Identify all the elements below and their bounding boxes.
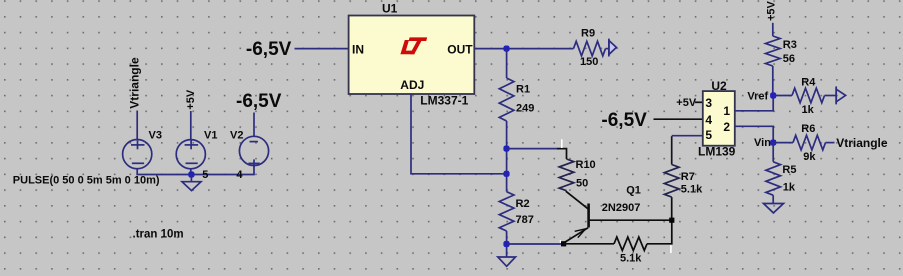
svg-text:IN: IN — [352, 42, 364, 56]
junction R2 bottom — [503, 241, 509, 247]
svg-text:Vref: Vref — [747, 91, 768, 103]
wire V3 bottom lead — [137, 166, 254, 175]
wire R6 to label — [826, 142, 835, 144]
svg-text:1k: 1k — [802, 104, 815, 116]
wire R1 top lead — [506, 49, 508, 78]
svg-text:V1: V1 — [204, 130, 217, 142]
svg-text:R10: R10 — [576, 159, 596, 171]
svg-text:U1: U1 — [382, 1, 398, 15]
svg-text:56: 56 — [783, 53, 795, 65]
wire V1 bottom lead — [190, 169, 192, 176]
svg-text:5.1k: 5.1k — [620, 252, 642, 264]
wire V1 top lead — [190, 111, 192, 140]
svg-text:249: 249 — [516, 102, 534, 114]
wire OUT — [474, 48, 573, 50]
comparator U2 LM139 box — [703, 91, 735, 146]
wire 5.1k to R7 node — [647, 220, 672, 244]
wire V3 top lead — [136, 111, 138, 141]
wire Vin to R5 — [772, 143, 774, 162]
wire R7 top / pin5 — [671, 136, 673, 164]
junction Q1 emitter — [561, 241, 566, 246]
svg-text:R5: R5 — [782, 164, 796, 176]
ground under R5 — [764, 204, 784, 213]
svg-text:Vtriangle: Vtriangle — [836, 136, 888, 150]
resistor R10 — [559, 159, 574, 191]
ground under R2 — [498, 257, 516, 266]
white artifact below R7 node — [670, 245, 672, 253]
wire R7 bottom lead — [671, 197, 673, 220]
svg-text:4: 4 — [236, 169, 243, 181]
svg-text:-6,5V: -6,5V — [246, 39, 292, 60]
wire to 5.1k — [564, 243, 615, 245]
resistor R2 — [499, 192, 514, 231]
wire Vref to R4 — [773, 95, 792, 97]
svg-text:R7: R7 — [681, 171, 695, 183]
svg-text:-6,5V: -6,5V — [601, 110, 647, 131]
svg-text:787: 787 — [516, 214, 534, 226]
resistor R1 — [499, 78, 514, 121]
svg-text:OUT: OUT — [447, 42, 473, 56]
svg-text:5: 5 — [202, 169, 208, 181]
junction node 0 — [188, 171, 194, 177]
svg-text:U2: U2 — [711, 79, 727, 93]
svg-text:R1: R1 — [516, 83, 530, 95]
wire pin1 to Vref — [735, 96, 773, 111]
resistor R9 — [574, 41, 606, 56]
resistor R4 — [792, 88, 825, 103]
resistor R5 — [766, 162, 781, 195]
LT logo — [400, 37, 427, 54]
wire V2 top lead — [253, 113, 255, 138]
op-amp U1 LM337 box — [349, 16, 475, 95]
svg-text:4: 4 — [705, 113, 712, 127]
output port flag R9 — [609, 39, 617, 57]
svg-text:9k: 9k — [803, 151, 816, 163]
wire bottom net — [507, 243, 561, 245]
resistor R6 — [793, 135, 826, 150]
svg-text:+5V: +5V — [185, 89, 197, 110]
svg-text:R4: R4 — [801, 76, 816, 88]
wire R1-R2 vertical — [506, 121, 508, 192]
svg-text:1k: 1k — [783, 181, 796, 193]
wire Q1 base — [589, 219, 672, 221]
wire R5 to ground — [772, 195, 774, 203]
junction OUT/R1 — [503, 46, 509, 52]
wire pin4 — [654, 118, 703, 120]
svg-text:150: 150 — [580, 56, 598, 68]
transistor Q1 2N2907 — [564, 191, 589, 243]
output port flag R4 — [836, 86, 845, 104]
svg-text:50: 50 — [576, 178, 588, 190]
wire IN — [295, 48, 349, 50]
svg-text:ADJ: ADJ — [400, 78, 424, 92]
junction Vref — [770, 92, 776, 98]
svg-text:Vin: Vin — [754, 137, 771, 149]
ground under V1 — [182, 175, 201, 191]
wire pin2 to Vin — [735, 126, 773, 142]
svg-text:V3: V3 — [149, 130, 162, 142]
svg-text:+5V: +5V — [766, 0, 778, 21]
svg-text:3: 3 — [705, 96, 712, 110]
white artifact near R10 — [561, 139, 563, 148]
junction ADJ — [503, 171, 509, 177]
wire to R10 (blue part) — [507, 148, 557, 150]
svg-text:R6: R6 — [801, 123, 815, 135]
svg-text:2N2907: 2N2907 — [602, 202, 641, 214]
svg-text:V2: V2 — [230, 130, 243, 142]
wire R9 to port — [606, 48, 610, 50]
svg-text:R2: R2 — [516, 198, 530, 210]
wire Vin to R6 — [773, 142, 793, 144]
voltage source V2 — [239, 136, 268, 167]
resistor R7 — [664, 165, 679, 198]
svg-text:+5V: +5V — [676, 97, 697, 109]
wire R3 to Vref — [772, 66, 774, 96]
wire R4 to port — [825, 95, 837, 97]
junction Q1 base / R7 — [669, 218, 674, 223]
wire R2 bottom — [506, 231, 508, 257]
wire pin3 — [695, 101, 703, 103]
svg-text:PULSE(0 50 0 5m 5m 0 10m): PULSE(0 50 0 5m 5m 0 10m) — [13, 175, 160, 187]
voltage source V3 — [123, 140, 152, 169]
svg-text:Q1: Q1 — [626, 185, 641, 197]
junction Vin — [770, 140, 776, 146]
svg-text:-6,5V: -6,5V — [236, 91, 282, 112]
svg-text:1: 1 — [723, 104, 730, 118]
svg-text:2: 2 — [723, 120, 730, 134]
wire ADJ — [411, 94, 507, 174]
svg-text:R9: R9 — [581, 28, 595, 40]
voltage source V1 — [176, 140, 205, 169]
junction R1 bottom — [503, 146, 509, 152]
wire to R10 (black part) — [557, 149, 567, 159]
svg-text:5: 5 — [705, 128, 712, 142]
svg-text:Vtriangle: Vtriangle — [128, 57, 142, 109]
svg-text:5.1k: 5.1k — [681, 183, 703, 195]
resistor 5.1k bottom — [614, 237, 647, 251]
svg-text:.tran 10m: .tran 10m — [133, 228, 184, 240]
white artifact at emitter junction — [559, 240, 561, 243]
resistor R3 — [766, 36, 781, 66]
svg-text:R3: R3 — [783, 39, 797, 51]
wire +5V to R3 — [772, 23, 774, 36]
svg-text:LM139: LM139 — [698, 145, 736, 159]
svg-text:LM337-1: LM337-1 — [420, 94, 468, 108]
